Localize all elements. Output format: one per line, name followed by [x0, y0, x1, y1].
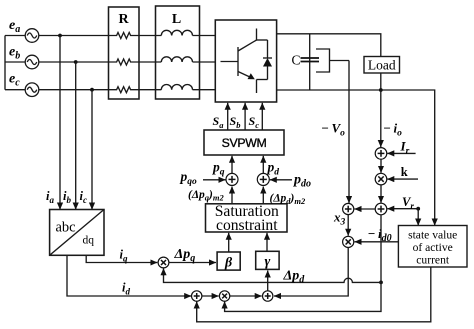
resistor Rb	[115, 59, 132, 65]
inductor La	[161, 30, 192, 35]
summer S2 (+Vr)	[375, 203, 387, 215]
node load-rail junction	[379, 88, 383, 92]
wire Vr down into state box	[417, 209, 419, 226]
summer S3 (x3 node)	[343, 203, 354, 214]
wire -id0 from state box	[355, 241, 399, 243]
node tap ia	[58, 34, 62, 38]
saturation constraint box	[206, 204, 288, 232]
capacitor C plates	[301, 58, 320, 62]
summer Sc (dpd)	[263, 291, 273, 301]
svg-text:R: R	[118, 12, 129, 27]
load box	[364, 57, 400, 74]
svg-text:id: id	[122, 281, 130, 297]
svg-text:state value: state value	[408, 229, 457, 242]
converter bridge box	[215, 20, 276, 102]
svg-text:pdo: pdo	[293, 173, 311, 190]
wire -io feedback	[380, 90, 382, 147]
wire pq up into SVPWM	[231, 156, 233, 174]
wire Vo sense stub	[330, 60, 350, 62]
svg-text:Δpd: Δpd	[283, 269, 306, 286]
wire tap ib down	[75, 62, 77, 210]
wire M3 to beta box	[169, 262, 216, 264]
wire M1 to S2	[380, 185, 382, 203]
wire tap ia down	[59, 36, 61, 210]
wire saturation out q	[231, 187, 233, 204]
summer Sd (pd)	[257, 173, 269, 185]
abc/dq transform box	[50, 210, 104, 256]
ac source eb	[25, 55, 39, 69]
wire phase b row	[5, 61, 215, 63]
wire Sa gate	[227, 103, 229, 130]
wire Sb gate	[244, 103, 246, 130]
wire left bus	[4, 36, 6, 90]
svg-text:SVPWM: SVPWM	[222, 136, 267, 150]
node tap ib	[74, 60, 78, 64]
gamma box	[256, 251, 279, 269]
svg-text:− io: − io	[383, 121, 402, 139]
node Vr corner	[416, 207, 420, 211]
multiplier M2 (x -id0)	[343, 236, 354, 247]
wire Vr input	[387, 208, 418, 210]
wire dc top rail	[277, 34, 381, 57]
transistor Q1 (IGBT)	[221, 29, 257, 94]
wire pdo input	[270, 179, 292, 181]
svg-text:ea: ea	[9, 18, 20, 35]
inductor Lc	[161, 85, 192, 90]
wire iq output	[86, 255, 151, 262]
svg-text:(Δpd)m2: (Δpd)m2	[270, 193, 307, 207]
wire saturation out d	[262, 187, 264, 204]
svg-text:abc: abc	[56, 219, 76, 235]
wire pqo input	[203, 179, 226, 181]
summer Sa (id + state)	[192, 291, 202, 301]
wire id output	[67, 255, 186, 296]
svg-text:ib: ib	[63, 189, 71, 205]
multiplier Mb (id)	[219, 291, 229, 301]
wire pd up into SVPWM	[262, 156, 264, 174]
wire gain feed to id multiplier	[225, 282, 381, 311]
wire S2 to S3	[355, 208, 376, 210]
resistor box R	[109, 7, 140, 99]
svg-text:Vr: Vr	[402, 195, 414, 211]
svg-text:L: L	[172, 12, 181, 27]
wire Sc gate	[261, 103, 263, 130]
wire state box bottom output	[197, 267, 431, 322]
summer S1 (+Ir)	[375, 148, 387, 160]
svg-text:current: current	[416, 254, 450, 267]
inductor box L	[156, 6, 200, 99]
svg-text:pqo: pqo	[180, 169, 198, 187]
capacitor C wire	[309, 34, 311, 90]
wire S3 to M2	[347, 215, 349, 236]
svg-text:ia: ia	[46, 189, 54, 205]
svg-text:β: β	[224, 256, 233, 271]
resistor Ra	[115, 33, 132, 39]
wire Mb to Sc	[230, 295, 262, 297]
node junction J1	[379, 281, 383, 285]
wire -Vo feedback	[348, 61, 350, 204]
svg-text:Sc: Sc	[249, 114, 260, 130]
wire dc bottom rail	[277, 90, 435, 220]
wire S2 output down to junction	[380, 215, 382, 283]
svg-text:pq: pq	[212, 160, 225, 178]
beta box	[217, 252, 240, 270]
wire Ir input	[387, 152, 415, 154]
svg-text:pd: pd	[267, 160, 280, 178]
node tap ic	[90, 88, 94, 92]
wire Sc up to gamma box	[267, 271, 269, 291]
wire bottom rail arrow into state box	[434, 218, 436, 226]
wire k input	[387, 178, 418, 180]
multiplier M3 (iq)	[158, 257, 169, 268]
wire S1 to M1	[380, 159, 382, 173]
svg-text:iq: iq	[120, 248, 128, 264]
multiplier M1 (xk)	[375, 173, 387, 185]
svg-text:(Δpq)m2: (Δpq)m2	[188, 189, 225, 203]
wire phase a row	[5, 35, 215, 37]
summer Sq (pq)	[226, 173, 238, 185]
svg-text:− Vo: − Vo	[321, 121, 345, 139]
svg-text:eb: eb	[9, 45, 20, 62]
wire gamma to saturation	[266, 233, 268, 252]
label state value of active current	[408, 229, 457, 267]
wire Sa to Mb	[202, 295, 219, 297]
resistor Rc	[115, 87, 132, 93]
SVPWM box	[204, 130, 284, 155]
svg-text:γ: γ	[264, 255, 270, 270]
svg-text:Load: Load	[368, 58, 396, 73]
wire tap ic down	[91, 90, 93, 210]
svg-text:k: k	[401, 165, 408, 179]
state feedback box	[398, 226, 467, 268]
ac source ea	[25, 29, 39, 43]
wire phase c row	[5, 89, 215, 91]
ac source ec	[25, 83, 39, 97]
svg-text:ic: ic	[80, 189, 87, 205]
svg-text:dq: dq	[83, 235, 95, 247]
wire load bottom	[380, 73, 382, 90]
inductor Lb	[161, 57, 192, 62]
diode D1	[257, 40, 273, 80]
wire gain feed to iq multiplier (hop over x3 line)	[164, 275, 382, 283]
voltage probe bracket	[316, 49, 330, 72]
svg-text:Sb: Sb	[230, 114, 241, 130]
wire M2 output down-left into Sc	[280, 248, 349, 297]
label saturation constraint	[215, 203, 279, 234]
svg-text:C: C	[292, 53, 301, 68]
svg-text:of active: of active	[413, 241, 453, 254]
svg-text:constraint: constraint	[216, 217, 278, 234]
svg-text:Δpq: Δpq	[174, 247, 196, 264]
svg-text:ec: ec	[9, 72, 20, 89]
svg-text:Sa: Sa	[213, 114, 225, 130]
wire beta to saturation	[228, 233, 230, 252]
